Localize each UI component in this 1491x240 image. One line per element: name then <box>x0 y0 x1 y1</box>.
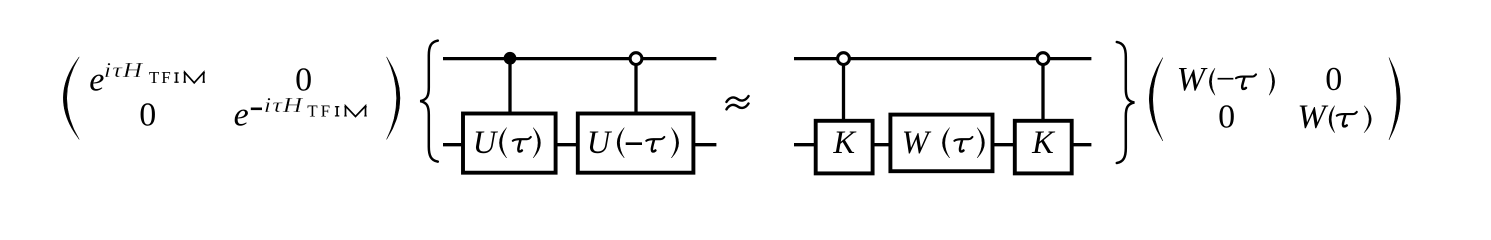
vertical wire control to U(tau) <box>508 59 511 113</box>
gate box K1 <box>816 121 873 174</box>
open control dot circuit2 right <box>1037 53 1049 65</box>
vertical wire open control to K2 <box>1041 59 1044 121</box>
right curly brace <box>1117 42 1135 163</box>
svg-text:0: 0 <box>1218 99 1235 136</box>
svg-text:0: 0 <box>295 62 312 99</box>
svg-text:K: K <box>832 125 857 161</box>
svg-text:W: W <box>902 125 932 161</box>
circuit 1 bottom wire right stub <box>694 143 716 146</box>
right matrix left paren <box>1149 58 1163 141</box>
circuit 2 bottom wire stub K1 to W <box>873 143 891 146</box>
approx equals sign <box>727 96 749 102</box>
gate box U(-tau) <box>578 114 694 173</box>
right matrix right paren <box>1389 58 1400 140</box>
svg-text:0: 0 <box>1325 61 1342 98</box>
open control dot circuit2 left <box>838 53 850 65</box>
circuit 2 bottom wire right stub <box>1072 143 1092 146</box>
svg-text:e: e <box>89 62 104 99</box>
circuit 2 bottom wire stub W to K2 <box>993 143 1015 146</box>
svg-text:K: K <box>1031 125 1056 161</box>
left curly brace <box>420 41 438 162</box>
left matrix right paren <box>387 57 400 139</box>
vertical wire open control to U(-tau) <box>634 59 637 113</box>
svg-text:W: W <box>1177 61 1208 98</box>
svg-text:U: U <box>587 125 613 161</box>
svg-text:W: W <box>1297 99 1328 136</box>
svg-text:iτH: iτH <box>104 60 144 83</box>
vertical wire open control to K1 <box>842 59 845 121</box>
superscript minus row2 <box>251 108 262 111</box>
svg-text:−: − <box>1216 61 1235 98</box>
svg-text:0: 0 <box>139 97 156 134</box>
circuit 2 bottom wire left stub <box>794 143 816 146</box>
subscript wide M row1 <box>185 72 204 83</box>
gate box W(tau) <box>890 115 992 172</box>
svg-text:U: U <box>473 125 499 161</box>
filled control dot <box>504 52 517 65</box>
gate box U(tau) <box>463 114 556 173</box>
subscript wide M row2 <box>346 106 366 117</box>
circuit 1 top wire <box>443 57 716 60</box>
circuit 1 bottom wire left stub <box>443 143 463 146</box>
svg-text:e: e <box>234 97 249 134</box>
circuit 1 bottom wire middle stub <box>557 143 577 146</box>
gate box K2 <box>1015 121 1072 174</box>
svg-text:iτH: iτH <box>264 95 304 118</box>
left matrix left paren <box>63 57 79 139</box>
circuit 2 top wire <box>794 57 1091 60</box>
open control dot circuit1 <box>630 53 642 65</box>
